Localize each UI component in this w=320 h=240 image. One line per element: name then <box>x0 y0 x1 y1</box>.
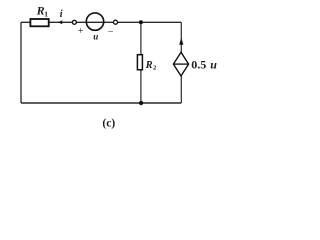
terminal (left of source) <box>72 20 76 24</box>
wire R2 branch <box>140 22 142 103</box>
terminal (right of source) <box>114 20 118 24</box>
node junction top <box>139 20 143 24</box>
wire bottom <box>21 102 181 104</box>
svg-text:1: 1 <box>44 10 48 19</box>
dependent source arrow <box>179 38 183 45</box>
resistor R1 <box>30 3 48 26</box>
resistor R2 <box>137 55 156 72</box>
node junction bottom <box>139 101 143 105</box>
wire left side <box>20 22 22 103</box>
svg-text:2: 2 <box>153 65 156 72</box>
wire top (node a to node b) <box>21 21 181 23</box>
svg-text:+: + <box>78 26 84 37</box>
voltage source u <box>78 13 114 42</box>
wire right side <box>180 22 182 103</box>
svg-text:u: u <box>210 58 217 72</box>
svg-text:0.5: 0.5 <box>191 58 206 72</box>
current arrow i <box>58 9 63 24</box>
svg-text:R: R <box>145 60 153 71</box>
svg-text:u: u <box>93 32 98 42</box>
svg-text:−: − <box>108 26 114 37</box>
svg-text:(c): (c) <box>102 118 115 130</box>
svg-text:i: i <box>60 9 63 20</box>
dependent source 0.5u (diamond) <box>173 52 217 76</box>
